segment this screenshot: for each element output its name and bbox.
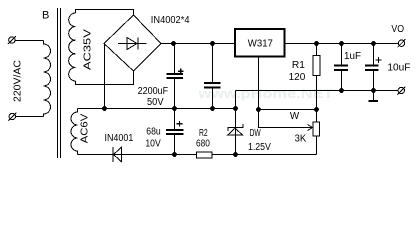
wire: bridge left vertex down to ground rail [104, 44, 106, 109]
junction: ADJ rail / R1-potentiometer [314, 107, 319, 112]
resistor R1 120 [313, 56, 320, 76]
capacitor 1uF [334, 66, 348, 71]
wire: main ground rail [78, 108, 236, 110]
wire: 1uF cap bottom lead [341, 70, 343, 91]
wire: input terminal bottom to primary coil [15, 116, 44, 118]
wire: 68u cap bottom lead [174, 134, 176, 155]
secondary winding AC35V [69, 13, 76, 81]
svg-text:50V: 50V [147, 97, 164, 108]
ground [373, 91, 375, 101]
regulator U1 W317 [235, 29, 284, 57]
svg-text:B: B [42, 10, 49, 22]
svg-text:680: 680 [196, 139, 210, 150]
svg-text:68u: 68u [146, 127, 160, 138]
capacitor 10uF [365, 66, 379, 71]
svg-text:IN4002*4: IN4002*4 [151, 15, 190, 26]
output terminal VO- [397, 87, 405, 95]
svg-text:AC6V: AC6V [80, 113, 91, 143]
junction: bottom rail / DW [233, 152, 238, 157]
diode IN4001 [113, 147, 122, 162]
secondary winding AC6V [71, 109, 77, 155]
junction: top rail / 2200uF [171, 41, 176, 46]
wire: wiper from ADJ rail to potentiometer [259, 110, 312, 128]
wire: bottom rail [78, 154, 317, 156]
junction: bottom rail / 68u [172, 152, 177, 157]
junction: ground rail / filter cap C2 [210, 106, 215, 111]
junction: ADJ rail / W317 ADJ pin [256, 107, 261, 112]
wire: 10uF cap top lead [373, 44, 375, 66]
potentiometer W 3K [313, 122, 320, 136]
transformer core [58, 8, 61, 158]
wire: input terminal top to primary coil [15, 40, 44, 42]
wire: ADJ rail [259, 109, 317, 111]
junction: ground rail / DW riser [233, 106, 238, 111]
wire: top rail bridge right vertex to W317 input [161, 43, 235, 45]
junction: output ground rail / 1uF [339, 88, 344, 93]
wire: AC35V top to bridge top [76, 10, 134, 16]
svg-text:W: W [290, 111, 300, 122]
svg-text:1.25V: 1.25V [248, 142, 271, 153]
wire: 1uF cap top lead [341, 44, 343, 66]
wire: filter cap C2 bottom lead [212, 88, 214, 109]
transformer primary winding [44, 41, 51, 117]
wire: DW branch ground rail to bottom rail [235, 109, 237, 155]
svg-text:W317: W317 [248, 39, 274, 50]
junction: ground rail / 2200uF-68u [172, 106, 177, 111]
junction: output ground rail / 10uF [371, 88, 376, 93]
junction: top rail / 1uF [339, 41, 344, 46]
wire: 68u cap top lead [174, 109, 176, 131]
svg-text:DW: DW [250, 128, 261, 139]
wire: potentiometer bottom to bottom rail [316, 136, 318, 155]
input terminal J1 [8, 36, 16, 44]
zener diode DW 1.25V [228, 124, 243, 135]
wire: 2200uF bottom lead [174, 78, 176, 109]
wire: output ground rail to VO- terminal [236, 90, 399, 92]
wire: 10uF cap bottom lead [373, 70, 375, 91]
svg-text:220V/AC: 220V/AC [13, 60, 24, 102]
resistor R2 680 [197, 152, 213, 158]
output terminal VO+ [398, 39, 406, 47]
svg-text:10V: 10V [145, 138, 161, 149]
wire: top rail W317 output to VO+ terminal [285, 43, 399, 45]
svg-text:2200uF: 2200uF [138, 86, 169, 97]
bridge inner diode [118, 38, 147, 50]
wire: ground riser at x=235 [235, 91, 237, 109]
junction: top rail / filter cap C2 [210, 41, 215, 46]
capacitor C1 2200uF 50V [166, 74, 182, 78]
junction: ground rail / bridge negative [102, 106, 107, 111]
svg-text:10uF: 10uF [387, 63, 410, 74]
input terminal J2 [8, 113, 16, 121]
wire: 2200uF top lead [174, 44, 176, 75]
wire: AC35V bottom to bridge bottom vertex [76, 71, 134, 85]
svg-text:1uF: 1uF [344, 51, 361, 62]
wire: filter cap C2 top lead [212, 44, 214, 84]
junction: top rail / 10uF [371, 41, 376, 46]
capacitor 68u 10V [166, 130, 184, 134]
junction: top rail / R1 [314, 41, 319, 46]
potentiometer wiper arrowhead [308, 125, 313, 131]
capacitor C2 [204, 83, 221, 88]
svg-text:R1: R1 [292, 60, 305, 71]
svg-text:120: 120 [289, 72, 306, 83]
bridge rectifier diamond IN4002*4 [104, 15, 161, 71]
svg-text:AC35V: AC35V [83, 29, 94, 70]
wire: W317 ADJ pin drop [258, 58, 260, 110]
wire: R1 branch top rail to potentiometer top [316, 44, 318, 122]
svg-text:IN4001: IN4001 [105, 133, 134, 144]
svg-text:3K: 3K [295, 134, 307, 145]
svg-text:VO: VO [391, 24, 404, 35]
